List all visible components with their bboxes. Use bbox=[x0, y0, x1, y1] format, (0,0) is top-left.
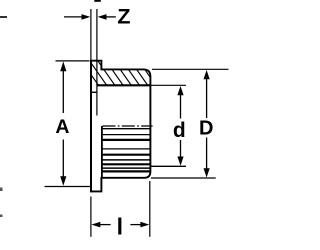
part outline: flange, collar step, body with rounded right corners bbox=[90, 61, 150, 192]
flange left face bbox=[90, 60, 92, 192]
dimension l: right extension line bbox=[149, 181, 151, 237]
center line (axis, dash-dot) bbox=[103, 125, 153, 127]
dimension d: down arrow and shaft bbox=[180, 140, 182, 158]
svg-text:d: d bbox=[173, 119, 186, 142]
dimension A: bottom extension line bbox=[45, 186, 92, 188]
scan speck top edge bbox=[94, 0, 101, 2]
flange inner shoulder rung bbox=[91, 91, 97, 93]
dimension A: up arrow and shaft bbox=[60, 62, 66, 72]
svg-text:Z: Z bbox=[117, 4, 130, 28]
scan speck left edge low bbox=[0, 215, 3, 218]
svg-text:A: A bbox=[55, 116, 69, 138]
svg-text:D: D bbox=[199, 117, 213, 139]
dimension l: left arrow bbox=[91, 222, 100, 228]
dimension D: up arrow and shaft bbox=[204, 70, 210, 79]
scan speck left edge at arrow level bbox=[0, 16, 7, 18]
dimension D: down arrow and shaft bbox=[206, 138, 208, 170]
dimension d: bottom extension line bbox=[151, 165, 186, 167]
section hatching bbox=[78, 56, 167, 90]
dimension l: left extension line bbox=[90, 197, 92, 237]
dimension d: up arrow and shaft bbox=[177, 86, 183, 95]
dimension D: top extension line bbox=[152, 68, 229, 70]
dimension A: top extension line bbox=[56, 60, 90, 62]
dimension Z: right arrow bbox=[98, 14, 107, 20]
rib lines on lower half (external view) bbox=[102, 129, 151, 172]
flange face line in lower external view bbox=[101, 126, 103, 178]
inner bore line (section) bbox=[97, 84, 150, 86]
dimension d: top extension line bbox=[151, 84, 186, 86]
dimension Z: right extension line into part bbox=[96, 9, 98, 116]
scan speck left edge mid bbox=[0, 188, 3, 192]
dimension l: right arrow bbox=[130, 224, 140, 226]
dimension A: down arrow and shaft bbox=[62, 140, 64, 178]
svg-text:l: l bbox=[117, 213, 123, 239]
dimension Z: left extension line bbox=[90, 9, 92, 60]
dimension D: bottom extension line bbox=[151, 177, 216, 179]
dimension Z: left arrow bbox=[64, 16, 83, 18]
